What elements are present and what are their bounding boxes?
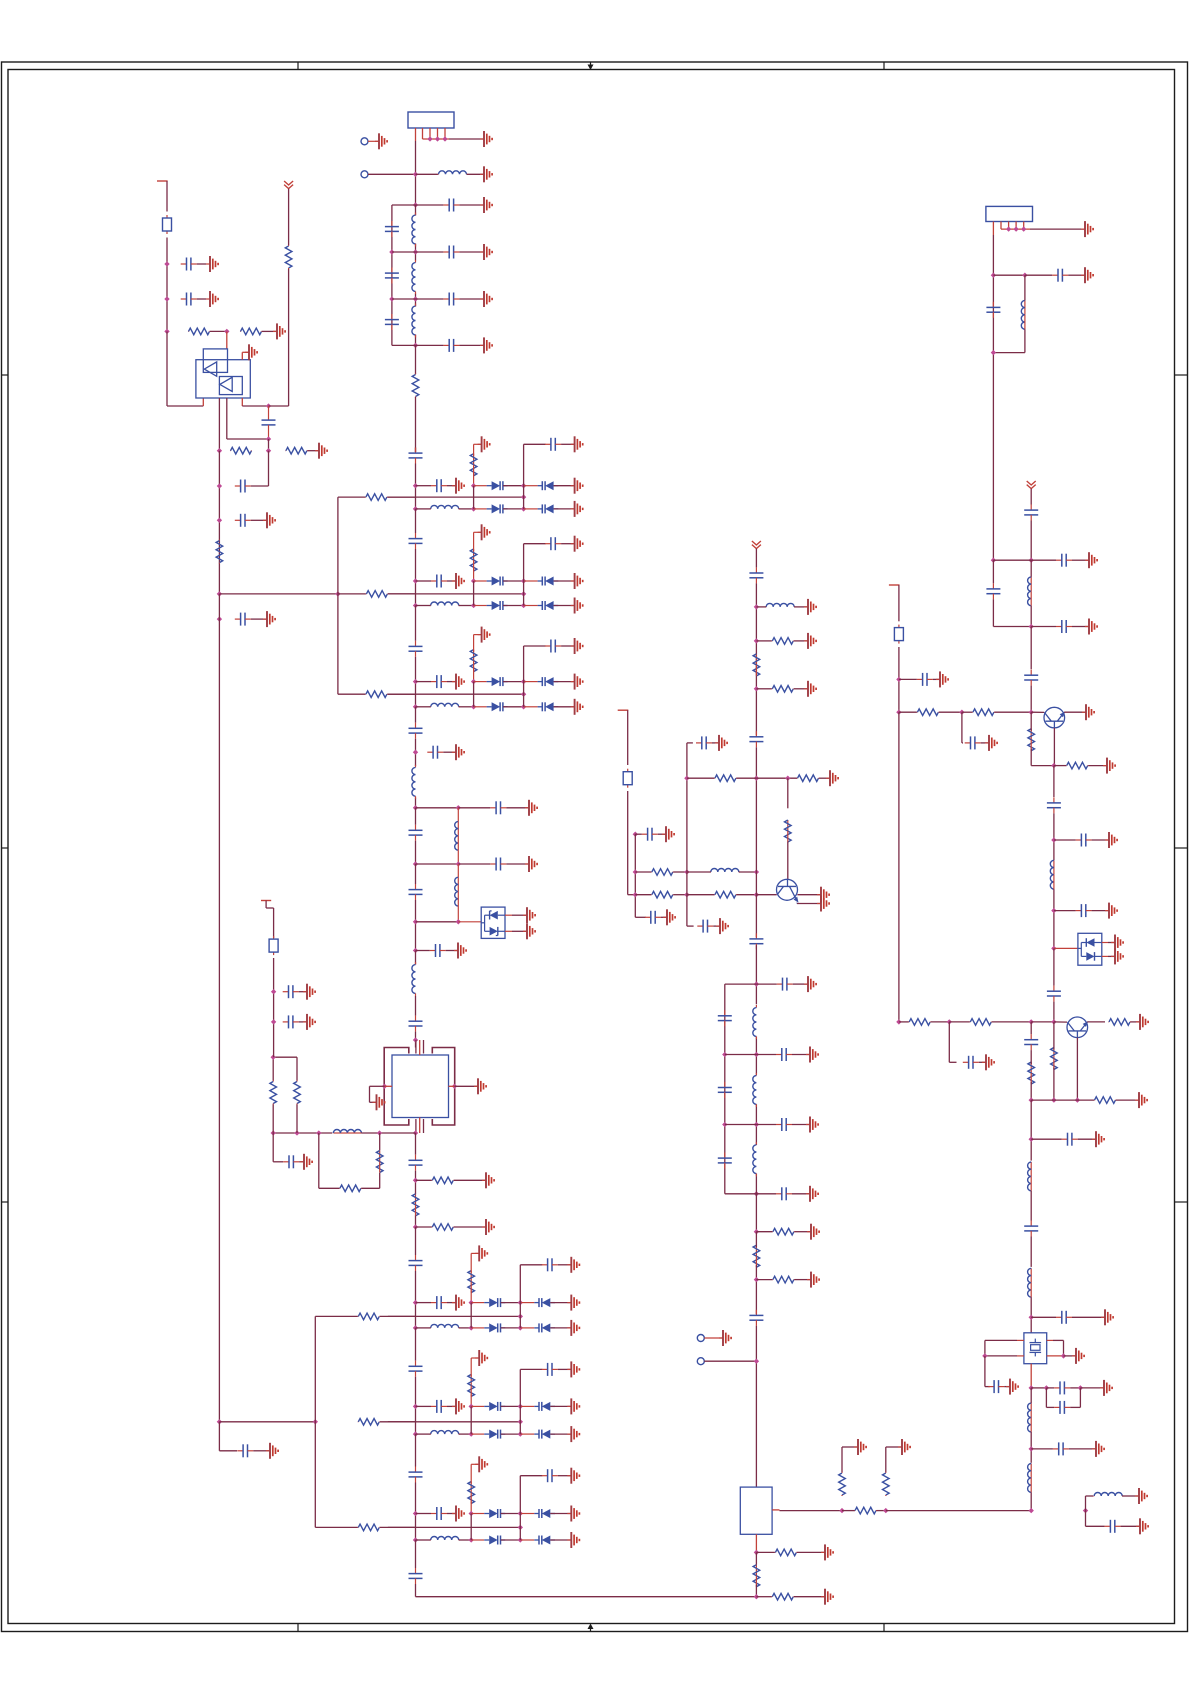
wire crossing bbox=[388, 1315, 520, 1317]
wire bbox=[416, 344, 444, 346]
wire bbox=[520, 1327, 534, 1329]
ground bbox=[1136, 1518, 1148, 1534]
wire bbox=[1053, 1339, 1064, 1341]
wire bbox=[561, 443, 574, 445]
varactor D73 bbox=[534, 1536, 555, 1545]
capacitor C50 bbox=[409, 1255, 423, 1271]
wire link bbox=[470, 1406, 472, 1434]
wire main bbox=[415, 640, 417, 642]
wire J1 pin2 bbox=[422, 128, 424, 139]
wire bbox=[756, 894, 776, 896]
dual zener ZD2 box bbox=[1078, 933, 1102, 965]
wire link bbox=[519, 1476, 521, 1540]
wire bbox=[296, 1057, 298, 1080]
resistor R2 bbox=[240, 328, 262, 335]
wire bbox=[474, 531, 481, 533]
wire pin bus bbox=[1001, 228, 1030, 230]
resistor R52 bbox=[1028, 729, 1035, 751]
junction bbox=[316, 1130, 321, 1135]
ground bbox=[480, 131, 492, 147]
wire main bbox=[415, 1377, 417, 1434]
wire bbox=[512, 914, 526, 916]
junction bbox=[427, 136, 432, 141]
capacitor C9 bbox=[385, 221, 399, 237]
terminal T2 bbox=[261, 900, 271, 902]
junction bbox=[164, 329, 169, 334]
junction bbox=[839, 1508, 844, 1513]
junction bbox=[266, 436, 271, 441]
inductor L40 bbox=[430, 703, 460, 707]
capacitor C123 bbox=[1056, 554, 1072, 567]
junction bbox=[518, 1431, 523, 1436]
wire main bbox=[755, 1176, 757, 1232]
inductor L32 bbox=[753, 1005, 757, 1039]
wire bbox=[520, 1513, 534, 1515]
wire bbox=[561, 543, 574, 545]
resistor R32 bbox=[714, 891, 736, 898]
wire bbox=[933, 678, 939, 680]
wire bbox=[725, 1054, 757, 1056]
wire bbox=[227, 438, 269, 440]
wire bbox=[634, 834, 636, 917]
wire op-amp pin bbox=[241, 398, 243, 406]
wire bbox=[273, 1056, 297, 1058]
zener diode D2a bbox=[1081, 938, 1102, 947]
resistor R50 bbox=[468, 1271, 475, 1293]
ground bbox=[452, 674, 464, 690]
ground bbox=[452, 1398, 464, 1414]
wire bbox=[524, 543, 546, 545]
wire bbox=[886, 1510, 1031, 1512]
wire bbox=[842, 1510, 855, 1512]
wire bbox=[756, 1551, 775, 1553]
wire bbox=[1030, 1388, 1032, 1403]
wire bbox=[1070, 1406, 1080, 1408]
inductor L46 bbox=[1028, 1464, 1032, 1493]
wire bbox=[1064, 1355, 1076, 1357]
wire crossing bbox=[388, 593, 524, 595]
border arrow top bbox=[588, 62, 594, 70]
varactor D31 bbox=[538, 577, 559, 586]
wire bbox=[756, 983, 776, 985]
wire bbox=[792, 1054, 809, 1056]
dual zener ZD1 box bbox=[481, 907, 505, 938]
wire bbox=[992, 560, 994, 583]
ground bbox=[1092, 1131, 1104, 1147]
resistor R30 bbox=[470, 549, 477, 571]
wire bbox=[979, 1061, 985, 1063]
resistor R16 bbox=[339, 1185, 361, 1192]
wire crossing bbox=[388, 1421, 520, 1423]
terminal TP1 bbox=[361, 138, 368, 145]
wire bbox=[315, 1315, 358, 1317]
wire bbox=[550, 1539, 570, 1541]
wire bbox=[473, 635, 475, 652]
wire bbox=[725, 1193, 757, 1195]
resistor R56 bbox=[1109, 1019, 1131, 1026]
ground bbox=[1100, 1380, 1112, 1396]
wire bbox=[1025, 274, 1052, 276]
capacitor C102 bbox=[696, 736, 712, 749]
ground bbox=[480, 197, 492, 213]
varactor D33 bbox=[538, 601, 559, 610]
wire main bbox=[755, 1265, 757, 1314]
wire bbox=[524, 645, 546, 647]
inductor L31 bbox=[765, 603, 795, 607]
wire bbox=[505, 930, 512, 932]
IC U2 shield left bbox=[384, 1048, 409, 1126]
junction bbox=[1029, 1019, 1034, 1024]
wire bbox=[380, 1315, 416, 1317]
junction bbox=[521, 603, 526, 608]
op-amp U1 triangle B bbox=[220, 377, 232, 391]
wire main bbox=[755, 1037, 757, 1075]
junction bbox=[633, 869, 638, 874]
wire bbox=[1072, 1316, 1104, 1318]
capacitor C125 bbox=[1056, 620, 1072, 633]
wire J1 pin1 bbox=[415, 128, 417, 141]
junction bbox=[684, 892, 689, 897]
wire bbox=[471, 1539, 484, 1541]
wire bbox=[524, 508, 538, 510]
junction bbox=[413, 202, 418, 207]
wire bbox=[459, 1327, 472, 1329]
wire bbox=[296, 1105, 298, 1134]
wire bbox=[687, 894, 715, 896]
junction bbox=[1051, 837, 1056, 842]
wire bbox=[554, 508, 574, 510]
wire bbox=[447, 485, 455, 487]
wire bbox=[459, 298, 483, 300]
resistor R17 bbox=[376, 1151, 383, 1173]
wire bbox=[794, 606, 807, 608]
resistor R31 bbox=[651, 891, 673, 898]
wire bbox=[512, 930, 526, 932]
wire bbox=[756, 1193, 776, 1195]
junction bbox=[469, 1300, 474, 1305]
ground bbox=[719, 1330, 731, 1346]
wire bbox=[253, 1450, 269, 1452]
capacitor C14 bbox=[443, 339, 459, 352]
junction bbox=[413, 343, 418, 348]
capacitor C90 bbox=[409, 1568, 423, 1584]
border tick top bbox=[883, 62, 885, 70]
junction bbox=[413, 172, 418, 177]
capacitor C55 bbox=[409, 884, 423, 900]
wire bbox=[1030, 1082, 1032, 1100]
junction bbox=[754, 1052, 759, 1057]
wire bbox=[370, 1085, 385, 1087]
wire rail bbox=[218, 451, 220, 594]
wire bbox=[447, 681, 455, 683]
wire bbox=[1131, 1021, 1140, 1023]
transistor Q3 bbox=[1067, 1017, 1088, 1038]
wire bbox=[1030, 749, 1032, 766]
junction bbox=[883, 1508, 888, 1513]
wire bbox=[1031, 559, 1056, 561]
ground bbox=[475, 1245, 487, 1261]
ground bbox=[1103, 758, 1115, 774]
resistor R57 bbox=[1028, 1062, 1035, 1084]
resistor R47 bbox=[772, 1593, 794, 1600]
wire bbox=[370, 1101, 376, 1103]
wire J1 pin5 bbox=[444, 128, 446, 139]
wire bbox=[166, 238, 168, 332]
junction bbox=[456, 805, 461, 810]
junction bbox=[469, 1537, 474, 1542]
junction bbox=[633, 832, 638, 837]
wire bbox=[415, 397, 417, 452]
junction bbox=[1051, 763, 1056, 768]
wire bbox=[251, 519, 266, 521]
ground bbox=[806, 1117, 818, 1133]
wire bbox=[471, 1252, 478, 1254]
crystal X1 symbol bbox=[1030, 1342, 1042, 1344]
junction bbox=[754, 1122, 759, 1127]
capacitor C104 bbox=[749, 567, 763, 583]
capacitor C11 bbox=[385, 314, 399, 330]
wire bbox=[470, 1291, 472, 1303]
wire bbox=[520, 1475, 542, 1477]
capacitor C141 bbox=[1053, 1442, 1069, 1455]
wire bbox=[210, 330, 227, 332]
ground bbox=[452, 744, 464, 760]
border tick right bbox=[1175, 847, 1189, 849]
junction bbox=[754, 686, 759, 691]
wire bbox=[454, 1226, 485, 1228]
capacitor C136 bbox=[1024, 1221, 1038, 1237]
wire main bbox=[415, 1216, 417, 1227]
wire bbox=[470, 1464, 472, 1483]
resistor R51 bbox=[972, 709, 994, 716]
wire bbox=[1068, 274, 1084, 276]
wire bbox=[265, 901, 267, 909]
wire link bbox=[470, 1303, 472, 1328]
wire bbox=[315, 1526, 358, 1528]
wire bbox=[793, 983, 807, 985]
wire bbox=[218, 1422, 220, 1451]
varactor D53 bbox=[534, 1323, 555, 1332]
ground bbox=[1101, 1309, 1113, 1325]
capacitor C103 bbox=[697, 920, 713, 933]
junction bbox=[521, 578, 526, 583]
wire bbox=[520, 1302, 534, 1304]
wire bbox=[756, 606, 766, 608]
junction bbox=[435, 136, 440, 141]
wire bbox=[554, 681, 574, 683]
varactor D50 bbox=[484, 1298, 505, 1307]
resistor R50 bbox=[917, 709, 939, 716]
wire bbox=[457, 850, 459, 864]
inductor L45 bbox=[1028, 1403, 1032, 1432]
ground bbox=[482, 1219, 494, 1235]
wire link bbox=[473, 581, 475, 606]
wire op-amp top pin bbox=[226, 331, 228, 349]
wire bbox=[1031, 1316, 1056, 1318]
ground bbox=[1081, 221, 1093, 237]
wire bbox=[961, 712, 963, 743]
junction bbox=[754, 604, 759, 609]
wire bbox=[416, 173, 439, 175]
wire bbox=[898, 585, 900, 621]
junction bbox=[754, 892, 759, 897]
varactor D40 bbox=[487, 677, 508, 686]
junction bbox=[413, 578, 418, 583]
capacitor C105 bbox=[749, 731, 763, 747]
ground bbox=[567, 1295, 579, 1311]
junction bbox=[896, 1019, 901, 1024]
wire bbox=[447, 1302, 455, 1304]
capacitor C5 bbox=[235, 514, 251, 527]
wire bbox=[1092, 910, 1108, 912]
ground bbox=[452, 1295, 464, 1311]
wire bbox=[1046, 1387, 1054, 1389]
wire bbox=[338, 496, 366, 498]
wire main bbox=[1053, 766, 1055, 797]
wire bbox=[501, 1513, 521, 1515]
junction bbox=[959, 710, 964, 715]
junction bbox=[471, 704, 476, 709]
ground bbox=[567, 1468, 579, 1484]
wire bbox=[459, 706, 474, 708]
IC U2 shield right bbox=[432, 1048, 454, 1126]
wire J2 pin5 bbox=[1023, 222, 1025, 230]
ground bbox=[817, 896, 829, 912]
wire bbox=[269, 405, 289, 407]
ground bbox=[806, 1047, 818, 1063]
wire bbox=[416, 706, 431, 708]
capacitor C13 bbox=[443, 293, 459, 306]
wire main bbox=[415, 1227, 417, 1255]
wire bbox=[251, 485, 269, 487]
inductor L35 bbox=[1093, 1493, 1123, 1497]
resistor R39 bbox=[772, 1228, 794, 1235]
capacitor C51 bbox=[427, 746, 443, 759]
wire bbox=[1108, 955, 1114, 957]
capacitor C42 bbox=[545, 640, 561, 653]
inductor L34 bbox=[753, 1142, 757, 1176]
wire rail bbox=[337, 497, 339, 694]
wire bbox=[1086, 1495, 1094, 1497]
wire main bbox=[415, 205, 417, 216]
capacitor C59 bbox=[283, 1015, 299, 1028]
wire bbox=[447, 580, 455, 582]
wire main bbox=[415, 864, 417, 884]
wire bbox=[473, 670, 475, 682]
junction bbox=[633, 892, 638, 897]
wire bbox=[262, 330, 276, 332]
wire bbox=[368, 140, 378, 142]
capacitor C106 bbox=[749, 933, 763, 949]
resistor R42 bbox=[855, 1507, 877, 1514]
wire bbox=[446, 950, 457, 952]
wire bbox=[704, 1360, 756, 1362]
wire bbox=[550, 1433, 570, 1435]
wire bbox=[1004, 1386, 1009, 1388]
wire main bbox=[415, 335, 417, 346]
junction bbox=[684, 869, 689, 874]
capacitor C53 bbox=[409, 825, 423, 841]
wire bbox=[627, 710, 629, 765]
capacitor C101 bbox=[645, 911, 661, 924]
resistor R46 bbox=[753, 1565, 760, 1587]
wire bbox=[687, 742, 693, 744]
wire bbox=[931, 1021, 950, 1023]
wire bbox=[635, 894, 651, 896]
capacitor C132 bbox=[1047, 986, 1061, 1002]
dual zener ZD2 internal bus bbox=[1080, 943, 1082, 957]
wire bbox=[1031, 1138, 1062, 1140]
junction bbox=[991, 558, 996, 563]
wire bbox=[457, 808, 459, 822]
junction bbox=[722, 1052, 727, 1057]
wire bbox=[1069, 1448, 1095, 1450]
junction bbox=[518, 1325, 523, 1330]
junction bbox=[1029, 1137, 1034, 1142]
wire bbox=[1054, 947, 1078, 949]
junction bbox=[1029, 1446, 1034, 1451]
wire bbox=[687, 777, 715, 779]
wire bbox=[272, 1057, 274, 1080]
wire bbox=[712, 742, 718, 744]
junction bbox=[982, 1353, 987, 1358]
border tick left bbox=[2, 1201, 9, 1203]
junction bbox=[1051, 908, 1056, 913]
wire bbox=[554, 580, 574, 582]
wire bbox=[797, 1551, 824, 1553]
IC U2 body bbox=[392, 1055, 449, 1118]
capacitor C108 bbox=[718, 1010, 732, 1026]
resistor R30 bbox=[651, 869, 673, 876]
wire bbox=[756, 1054, 776, 1056]
wire bbox=[628, 894, 636, 896]
ground bbox=[1135, 1488, 1147, 1504]
wire bbox=[1030, 228, 1084, 230]
ground bbox=[1105, 832, 1117, 848]
wire bbox=[984, 1356, 986, 1387]
terminal TP4 bbox=[697, 1358, 704, 1365]
resistor R7 bbox=[366, 591, 388, 598]
wire main bbox=[415, 996, 417, 1016]
wire bbox=[885, 1447, 887, 1472]
ground bbox=[475, 1456, 487, 1472]
wire bbox=[272, 1133, 274, 1162]
junction bbox=[271, 1055, 276, 1060]
ground bbox=[854, 1439, 866, 1455]
wire main bbox=[1030, 686, 1032, 713]
wire bbox=[474, 681, 487, 683]
wire X1 pin bbox=[1047, 1355, 1064, 1357]
wire op-amp pin bbox=[226, 398, 228, 439]
wire bbox=[755, 1232, 757, 1248]
junction bbox=[1029, 1508, 1034, 1513]
wire bbox=[273, 1132, 332, 1134]
wire bbox=[416, 1405, 432, 1407]
wire bbox=[503, 681, 523, 683]
junction bbox=[1029, 710, 1034, 715]
wire bbox=[1079, 1388, 1081, 1408]
ground bbox=[1111, 935, 1123, 951]
wire bbox=[756, 688, 771, 690]
ground bbox=[478, 436, 490, 452]
ground bbox=[807, 1224, 819, 1240]
wire bbox=[503, 485, 523, 487]
resistor R34 bbox=[753, 654, 760, 676]
wire main bbox=[755, 1326, 757, 1487]
wire long rail bbox=[898, 712, 900, 1022]
wire bbox=[550, 1405, 570, 1407]
ground bbox=[263, 512, 275, 528]
